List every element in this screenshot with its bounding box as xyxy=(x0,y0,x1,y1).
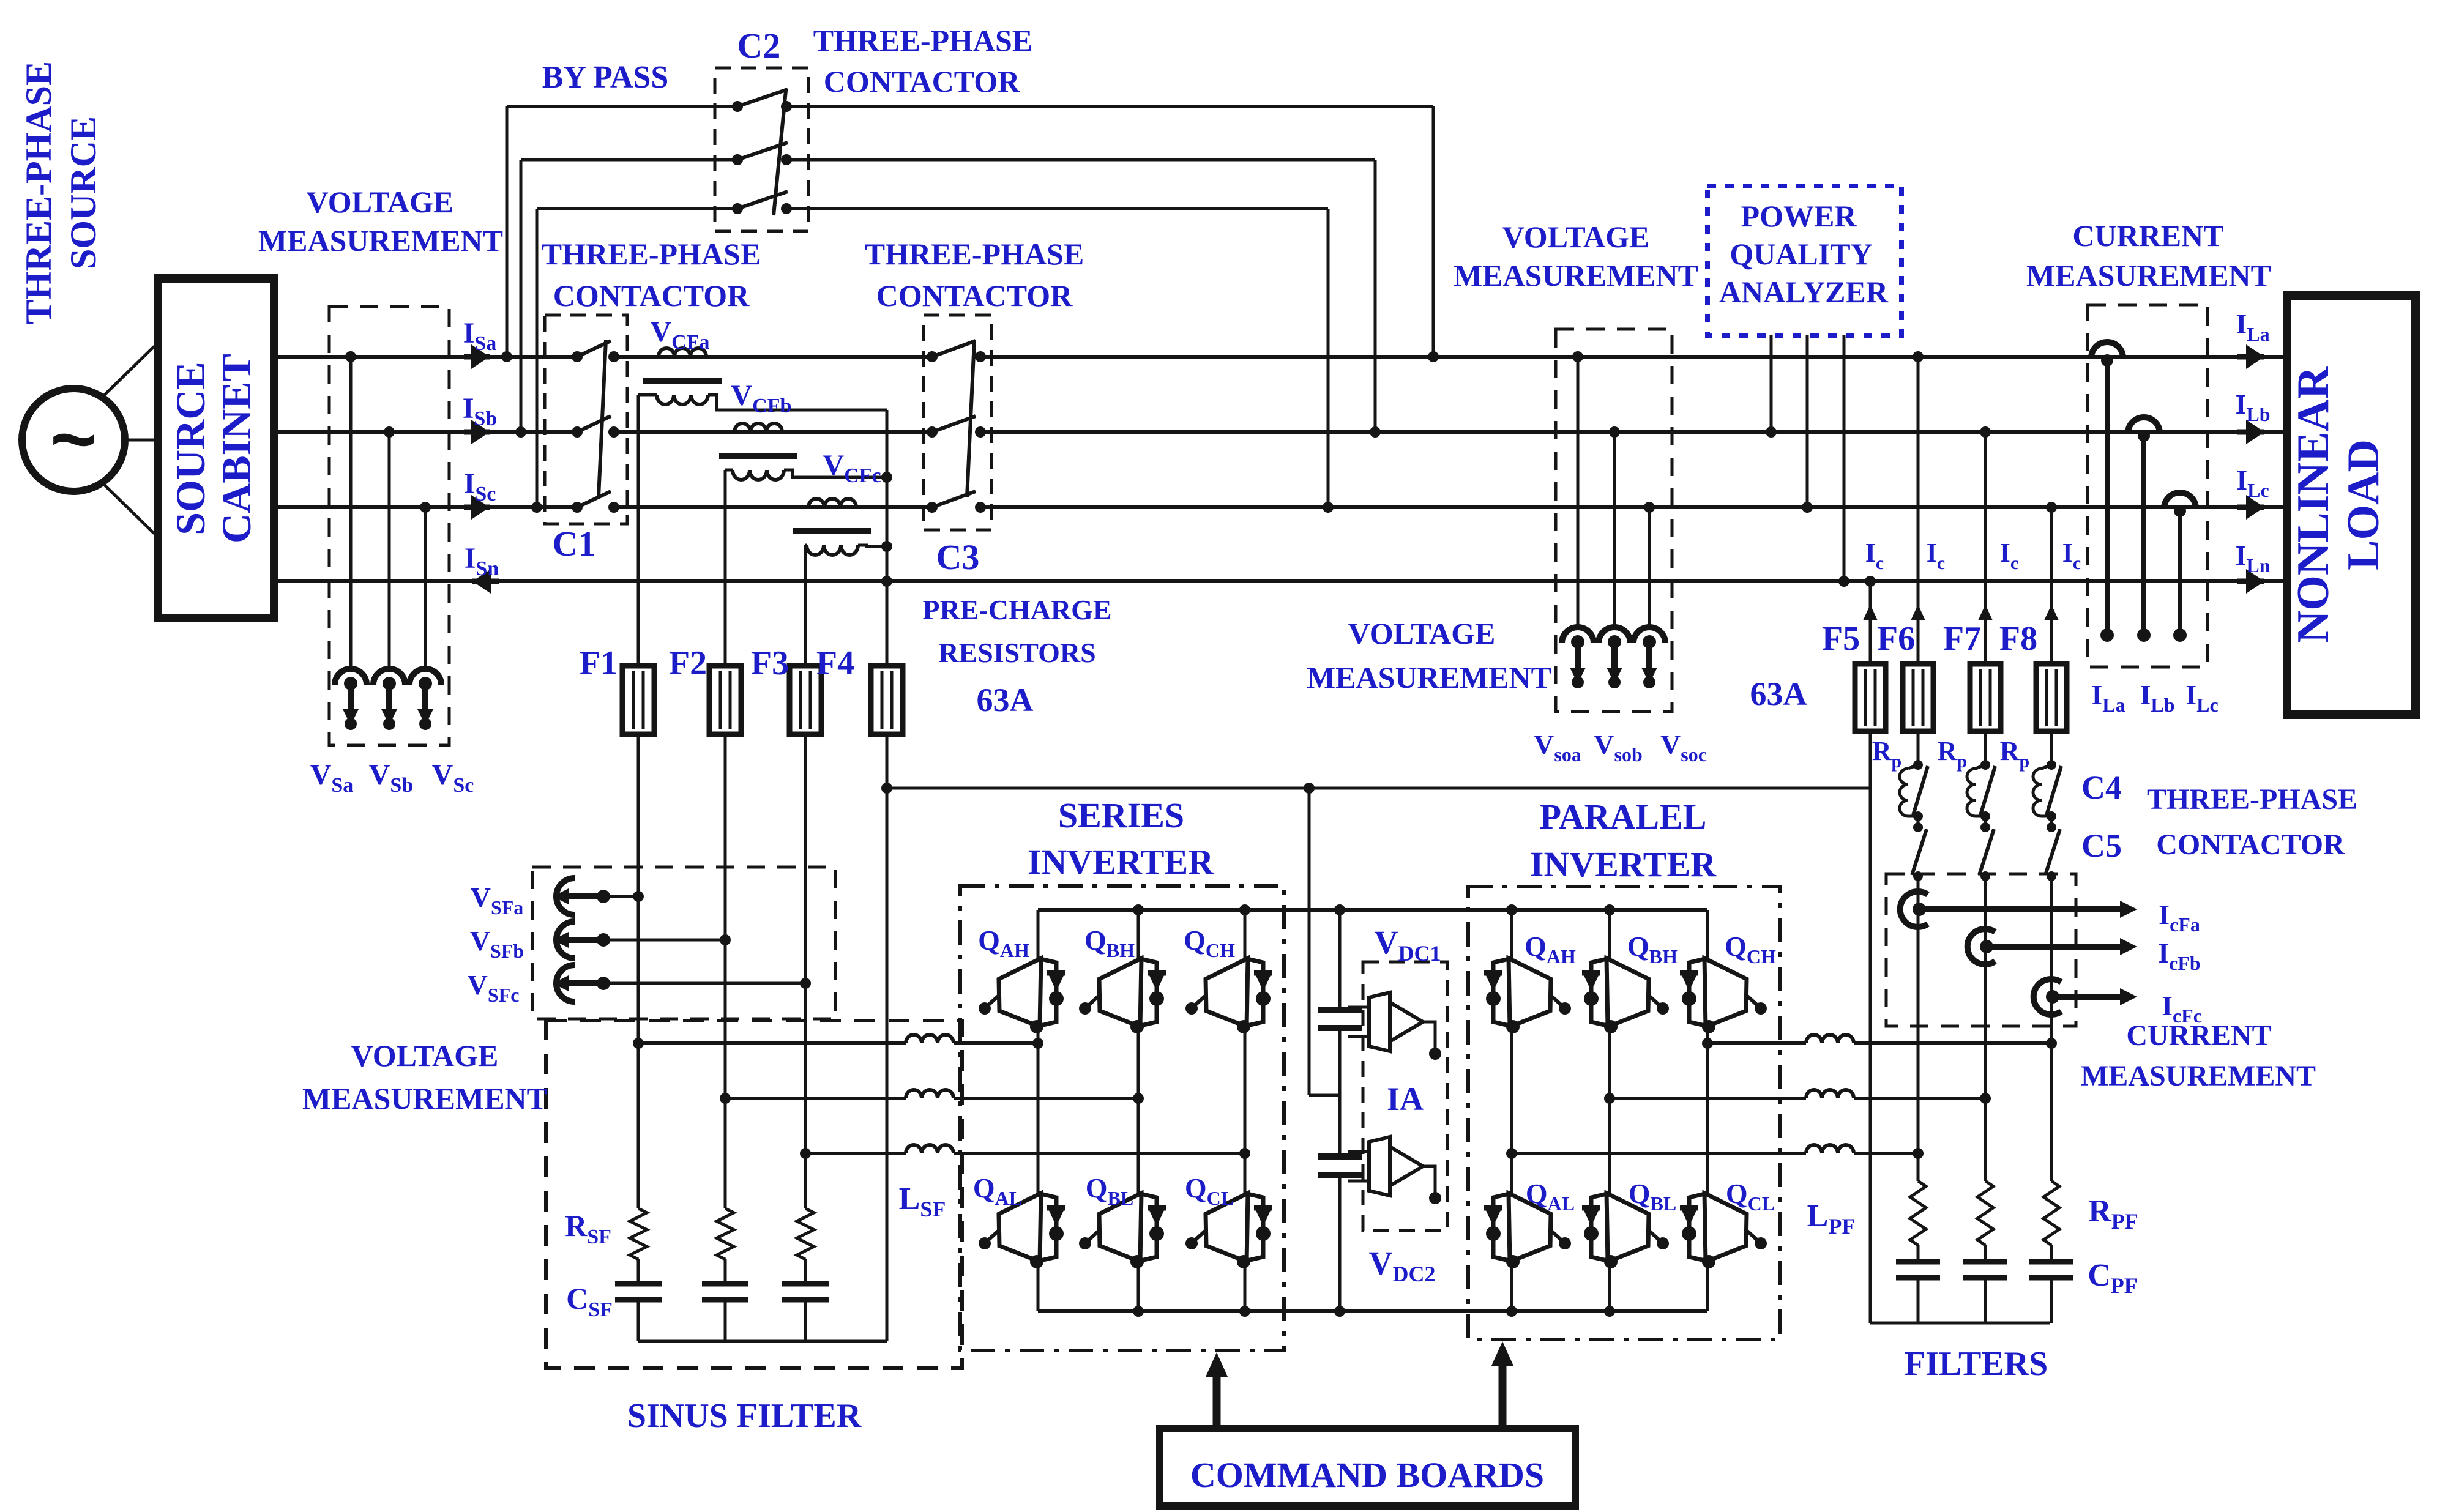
svg-text:THREE-PHASE: THREE-PHASE xyxy=(2147,783,2357,816)
svg-text:CURRENT: CURRENT xyxy=(2126,1019,2271,1052)
svg-text:POWER: POWER xyxy=(1741,199,1857,233)
svg-text:SINUS FILTER: SINUS FILTER xyxy=(627,1397,862,1435)
svg-text:F4: F4 xyxy=(816,644,854,682)
svg-text:MEASUREMENT: MEASUREMENT xyxy=(302,1081,547,1115)
svg-text:INVERTER: INVERTER xyxy=(1530,844,1717,884)
svg-text:63A: 63A xyxy=(977,682,1034,718)
svg-text:F8: F8 xyxy=(1999,620,2037,658)
svg-text:F6: F6 xyxy=(1877,620,1915,658)
svg-text:LOAD: LOAD xyxy=(2338,439,2389,570)
svg-text:BY PASS: BY PASS xyxy=(542,60,669,95)
svg-text:~: ~ xyxy=(50,394,97,483)
svg-text:C1: C1 xyxy=(553,524,596,564)
svg-text:THREE-PHASE: THREE-PHASE xyxy=(18,61,59,324)
svg-text:THREE-PHASE: THREE-PHASE xyxy=(542,237,761,271)
svg-text:NONLINEAR: NONLINEAR xyxy=(2288,365,2338,643)
svg-text:CONTACTOR: CONTACTOR xyxy=(553,278,750,313)
svg-text:RESISTORS: RESISTORS xyxy=(938,637,1095,668)
svg-text:SOURCE: SOURCE xyxy=(63,116,103,269)
svg-text:VOLTAGE: VOLTAGE xyxy=(351,1038,499,1073)
svg-text:CURRENT: CURRENT xyxy=(2072,218,2223,253)
svg-text:SERIES: SERIES xyxy=(1058,795,1184,835)
svg-text:C4: C4 xyxy=(2081,769,2122,806)
svg-text:F7: F7 xyxy=(1943,620,1981,658)
svg-text:MEASUREMENT: MEASUREMENT xyxy=(1454,258,1698,292)
svg-text:CONTACTOR: CONTACTOR xyxy=(824,64,1020,99)
svg-text:C2: C2 xyxy=(737,26,781,65)
svg-text:ANALYZER: ANALYZER xyxy=(1719,275,1889,309)
svg-text:INVERTER: INVERTER xyxy=(1028,842,1214,882)
svg-text:MEASUREMENT: MEASUREMENT xyxy=(258,223,503,258)
svg-text:THREE-PHASE: THREE-PHASE xyxy=(813,23,1032,58)
svg-text:THREE-PHASE: THREE-PHASE xyxy=(865,237,1084,271)
svg-text:MEASUREMENT: MEASUREMENT xyxy=(1307,660,1551,695)
svg-text:CABINET: CABINET xyxy=(213,354,259,543)
svg-text:CONTACTOR: CONTACTOR xyxy=(2156,829,2345,861)
svg-text:CONTACTOR: CONTACTOR xyxy=(876,278,1073,313)
svg-text:F1: F1 xyxy=(580,644,618,682)
svg-text:C5: C5 xyxy=(2081,827,2122,864)
svg-text:PARALEL: PARALEL xyxy=(1540,797,1707,836)
svg-text:FILTERS: FILTERS xyxy=(1905,1345,2048,1383)
svg-text:MEASUREMENT: MEASUREMENT xyxy=(2081,1060,2316,1092)
svg-text:F5: F5 xyxy=(1822,620,1860,658)
svg-text:PRE-CHARGE: PRE-CHARGE xyxy=(922,594,1111,625)
svg-text:SOURCE: SOURCE xyxy=(167,362,214,535)
svg-text:VOLTAGE: VOLTAGE xyxy=(307,185,454,219)
svg-text:F3: F3 xyxy=(751,644,789,682)
svg-text:63A: 63A xyxy=(1750,676,1807,712)
svg-text:QUALITY: QUALITY xyxy=(1730,237,1872,271)
svg-text:IA: IA xyxy=(1387,1081,1424,1117)
svg-text:MEASUREMENT: MEASUREMENT xyxy=(2026,258,2271,292)
svg-text:C3: C3 xyxy=(936,537,980,577)
svg-text:F2: F2 xyxy=(669,644,707,682)
svg-text:VOLTAGE: VOLTAGE xyxy=(1502,220,1650,254)
svg-text:VOLTAGE: VOLTAGE xyxy=(1348,616,1496,650)
svg-text:COMMAND BOARDS: COMMAND BOARDS xyxy=(1190,1455,1544,1495)
